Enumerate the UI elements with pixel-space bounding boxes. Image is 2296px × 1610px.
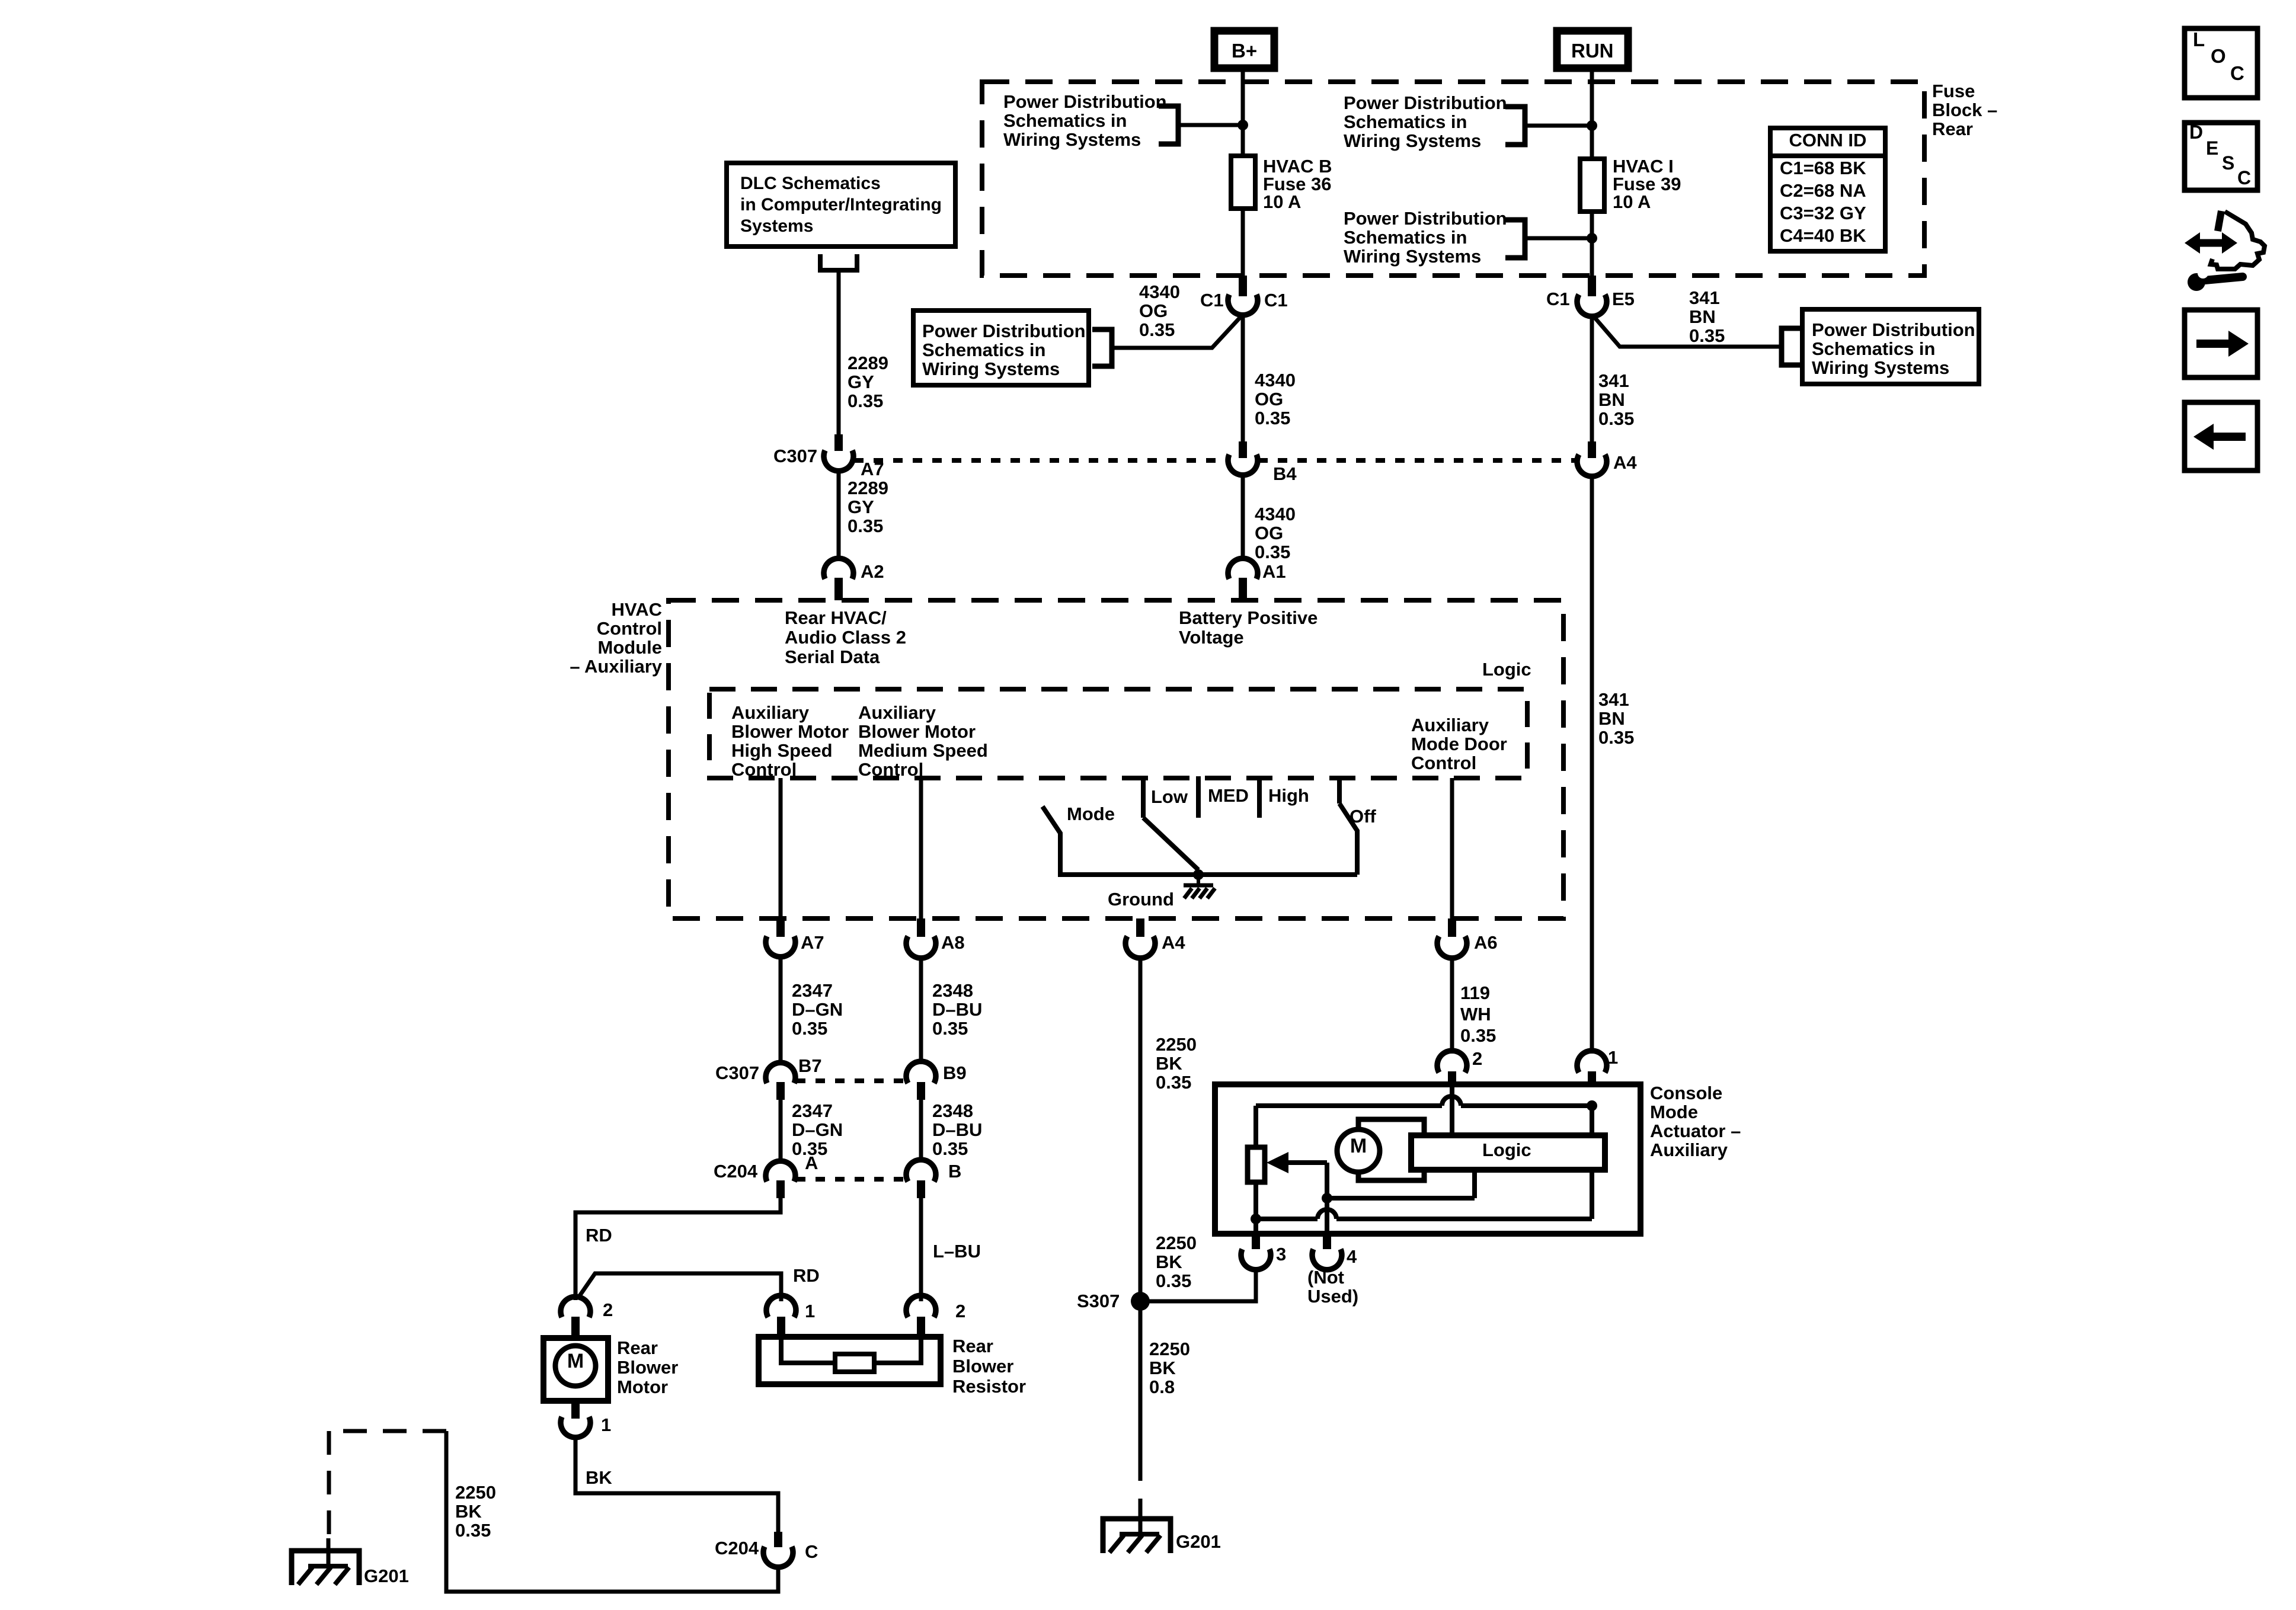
junction dot switch common xyxy=(1193,869,1204,880)
svg-text:Auxiliary: Auxiliary xyxy=(1650,1140,1728,1160)
svg-text:Rear: Rear xyxy=(952,1336,993,1356)
wire B7 to C204 A xyxy=(779,1100,783,1162)
wire mode door control to A6 xyxy=(1450,778,1454,918)
svg-text:BK: BK xyxy=(1156,1053,1182,1074)
wire S307 to G201 middle xyxy=(1139,1301,1143,1481)
C307 dotted line B7-B9 xyxy=(796,1078,906,1083)
pin motor 1 xyxy=(571,1401,580,1419)
actuator motor frame xyxy=(1358,1119,1424,1180)
svg-text:C1=68 BK: C1=68 BK xyxy=(1780,158,1866,178)
connector A6 (module bottom) xyxy=(1437,936,1467,958)
wire potentiometer to pin 3 xyxy=(1253,1182,1258,1234)
wire actuator pin1 down inside box xyxy=(1590,1106,1594,1219)
pin C204 A xyxy=(776,1180,785,1198)
C307 inline connector dotted line (right) xyxy=(1258,458,1575,463)
pin B7 xyxy=(776,1082,785,1100)
pin A4 (module bottom) xyxy=(1136,918,1144,937)
svg-text:0.35: 0.35 xyxy=(1156,1270,1191,1291)
pin C204 B xyxy=(917,1180,925,1198)
switch off blade xyxy=(1339,804,1357,875)
svg-text:0.35: 0.35 xyxy=(932,1018,968,1039)
junction dot wiper/logic xyxy=(1322,1193,1332,1204)
svg-text:341: 341 xyxy=(1689,287,1720,308)
wire A8 to C307 B9 xyxy=(919,956,923,1064)
svg-text:Console: Console xyxy=(1650,1083,1722,1103)
svg-text:D: D xyxy=(2189,121,2203,143)
internal ground symbol (switch) xyxy=(1184,884,1213,888)
actuator internal ground-side wire with hop xyxy=(1256,1217,1318,1221)
svg-text:4340: 4340 xyxy=(1139,281,1180,302)
left arrow xyxy=(2212,433,2246,441)
wire E5 branch to power distribution xyxy=(1594,316,1782,347)
wire stub into G201 middle xyxy=(1139,1499,1143,1534)
svg-text:C4=40 BK: C4=40 BK xyxy=(1780,225,1866,246)
svg-text:Blower Motor: Blower Motor xyxy=(858,721,976,742)
svg-text:C204: C204 xyxy=(714,1161,758,1182)
svg-text:10 A: 10 A xyxy=(1263,191,1301,212)
pin B4 xyxy=(1239,441,1247,458)
svg-text:A6: A6 xyxy=(1474,932,1498,953)
connector C307 B4 xyxy=(1228,454,1258,475)
svg-text:0.35: 0.35 xyxy=(1689,325,1725,346)
HVAC control module - auxiliary dashed outline xyxy=(669,600,1563,918)
potentiometer (position feedback) xyxy=(1248,1147,1265,1182)
rear blower resistor box xyxy=(759,1337,941,1384)
svg-text:Wiring Systems: Wiring Systems xyxy=(1344,130,1481,151)
svg-text:A: A xyxy=(805,1153,818,1173)
module logic dashed box xyxy=(709,689,1527,778)
wire L-BU C204 B to resistor pin 2 xyxy=(919,1198,923,1301)
splice S307 xyxy=(1131,1292,1150,1311)
connector C1 E5 xyxy=(1577,295,1607,316)
switch mode blade and common bar xyxy=(1043,806,1357,875)
junction dot RUN / power distribution tap 2 xyxy=(1587,233,1597,244)
svg-text:M: M xyxy=(567,1350,584,1372)
svg-text:C: C xyxy=(805,1541,818,1562)
svg-text:C204: C204 xyxy=(715,1538,759,1558)
svg-text:Off: Off xyxy=(1350,806,1376,827)
rear blower motor box xyxy=(543,1338,608,1401)
svg-text:Schematics in: Schematics in xyxy=(1344,111,1467,132)
svg-text:(Not: (Not xyxy=(1307,1267,1344,1288)
svg-text:Fuse: Fuse xyxy=(1932,81,1975,101)
svg-text:2348: 2348 xyxy=(932,980,973,1001)
svg-text:0.35: 0.35 xyxy=(932,1138,968,1159)
svg-text:2250: 2250 xyxy=(1156,1034,1197,1055)
wire A6 to actuator pin 2 xyxy=(1450,956,1454,1054)
pin actuator 3 xyxy=(1252,1234,1260,1249)
svg-text:A4: A4 xyxy=(1613,452,1637,473)
wire E5 to A4 xyxy=(1590,314,1594,441)
svg-text:2289: 2289 xyxy=(848,353,888,373)
svg-text:Schematics in: Schematics in xyxy=(1003,110,1127,131)
svg-text:L: L xyxy=(2193,28,2205,50)
svg-text:B+: B+ xyxy=(1232,40,1257,62)
potentiometer wiper arrow xyxy=(1287,1160,1327,1165)
svg-text:2250: 2250 xyxy=(455,1482,496,1503)
wire A4 to S307 xyxy=(1139,956,1143,1301)
svg-text:Wiring Systems: Wiring Systems xyxy=(922,359,1060,379)
svg-text:C307: C307 xyxy=(715,1062,759,1083)
svg-text:HVAC: HVAC xyxy=(611,599,662,620)
connector actuator pin 1 xyxy=(1577,1051,1607,1073)
svg-text:OG: OG xyxy=(1255,389,1283,409)
pin motor 2 xyxy=(571,1317,580,1338)
svg-text:2: 2 xyxy=(1472,1048,1482,1069)
power distribution box left xyxy=(913,311,1089,385)
svg-text:OG: OG xyxy=(1255,523,1283,543)
svg-text:S307: S307 xyxy=(1077,1291,1120,1311)
svg-text:L–BU: L–BU xyxy=(933,1241,981,1262)
svg-text:A4: A4 xyxy=(1162,932,1185,953)
pin A7 (module bottom) xyxy=(776,918,785,937)
connector A8 (module bottom) xyxy=(906,936,936,958)
svg-text:Power Distribution: Power Distribution xyxy=(1344,208,1507,229)
CONN ID table xyxy=(1770,128,1885,251)
svg-text:Wiring Systems: Wiring Systems xyxy=(1344,246,1481,267)
svg-text:2348: 2348 xyxy=(932,1100,973,1121)
wire B+ to fuse 36 xyxy=(1241,68,1245,156)
junction dot pot/pin3 xyxy=(1251,1214,1261,1224)
pin A8 (module bottom) xyxy=(917,918,925,937)
svg-text:Block –: Block – xyxy=(1932,100,1997,120)
svg-text:1: 1 xyxy=(805,1301,815,1321)
switch contact med tick xyxy=(1196,776,1201,818)
wire A7 to C307 B7 xyxy=(779,956,783,1064)
svg-text:341: 341 xyxy=(1598,689,1629,710)
wire fuse 39 to C1 E5 xyxy=(1590,212,1594,276)
wire actuator pin 2 to logic xyxy=(1450,1087,1454,1135)
pin actuator 2 xyxy=(1448,1071,1456,1087)
pin C1 (B+ feed) xyxy=(1239,276,1247,296)
connector actuator pin 3 xyxy=(1241,1249,1271,1270)
connector C307 B7 xyxy=(766,1062,795,1083)
connector A7 (module bottom) xyxy=(766,936,795,957)
switch contact high tick xyxy=(1257,776,1262,818)
wire RUN to fuse 39 xyxy=(1590,68,1594,159)
svg-text:Wiring Systems: Wiring Systems xyxy=(1003,129,1141,150)
svg-text:E: E xyxy=(2206,137,2218,159)
pin A1 xyxy=(1239,578,1247,600)
svg-text:Rear: Rear xyxy=(1932,119,1973,139)
wire high speed control to A7 xyxy=(779,778,783,918)
svg-text:0.35: 0.35 xyxy=(455,1520,491,1541)
pin resistor 1 xyxy=(777,1317,785,1337)
svg-text:2: 2 xyxy=(603,1299,613,1320)
junction dot RUN / power distribution tap 1 xyxy=(1587,120,1597,131)
svg-text:WH: WH xyxy=(1460,1004,1491,1025)
switch contact off xyxy=(1337,776,1342,804)
svg-text:D–GN: D–GN xyxy=(792,999,843,1020)
svg-text:0.35: 0.35 xyxy=(848,516,883,536)
svg-text:Mode Door: Mode Door xyxy=(1411,734,1507,754)
wire wiper to pin 4 xyxy=(1325,1163,1329,1234)
svg-text:3: 3 xyxy=(1276,1244,1286,1265)
svg-text:B9: B9 xyxy=(943,1062,967,1083)
svg-text:C307: C307 xyxy=(773,446,817,466)
svg-text:0.35: 0.35 xyxy=(1255,542,1290,562)
svg-text:Schematics in: Schematics in xyxy=(1344,227,1467,248)
power rail box B+ xyxy=(1214,31,1274,68)
svg-text:M: M xyxy=(1350,1135,1367,1157)
svg-text:RD: RD xyxy=(586,1225,612,1246)
wire C204 C to ground riser xyxy=(446,1431,778,1592)
connector C204 C xyxy=(763,1547,793,1567)
svg-text:0.35: 0.35 xyxy=(848,391,883,411)
ground G201 (left) xyxy=(292,1551,359,1585)
svg-text:0.8: 0.8 xyxy=(1149,1377,1175,1397)
svg-text:2347: 2347 xyxy=(792,1100,833,1121)
svg-text:C3=32 GY: C3=32 GY xyxy=(1780,203,1866,223)
bracket power distribution box left xyxy=(1092,329,1112,366)
svg-text:4340: 4340 xyxy=(1255,370,1296,391)
svg-text:CONN ID: CONN ID xyxy=(1789,130,1867,151)
wire BK motor pin 1 to C204 C xyxy=(575,1436,778,1532)
svg-text:Low: Low xyxy=(1151,786,1188,807)
svg-text:B4: B4 xyxy=(1273,463,1297,484)
connector A4 (module bottom) xyxy=(1125,936,1155,958)
svg-text:Blower: Blower xyxy=(952,1356,1013,1377)
connector C1 (B+ feed) xyxy=(1228,295,1258,315)
wire B9 to C204 B xyxy=(919,1100,923,1162)
svg-text:Audio Class 2: Audio Class 2 xyxy=(785,627,906,648)
junction dot B+ / power distribution tap xyxy=(1237,120,1248,130)
power rail box RUN xyxy=(1557,31,1628,68)
svg-text:Ground: Ground xyxy=(1108,889,1174,910)
wire S307 to actuator pin 3 xyxy=(1140,1269,1256,1301)
svg-text:Power Distribution: Power Distribution xyxy=(1812,319,1975,340)
right arrow xyxy=(2196,340,2230,348)
pin A2 xyxy=(834,578,843,600)
svg-text:A1: A1 xyxy=(1262,561,1286,582)
svg-text:Control: Control xyxy=(1411,753,1476,773)
wire C307 A7 to A2 xyxy=(837,470,841,559)
junction dot actuator pin 1 feed xyxy=(1587,1100,1597,1111)
connector A1 xyxy=(1228,558,1258,579)
svg-text:A7: A7 xyxy=(801,932,824,953)
fuse F39 HVAC I 10A xyxy=(1580,159,1604,212)
DLC box connector bracket xyxy=(820,254,857,270)
bracket power distribution box right xyxy=(1782,328,1801,365)
wire power distribution 2 tap xyxy=(1525,124,1592,128)
icon box arrow left xyxy=(2185,402,2257,470)
icon box LOC xyxy=(2185,28,2257,98)
svg-text:Blower Motor: Blower Motor xyxy=(731,721,849,742)
connector C307 A7 xyxy=(824,450,853,471)
svg-text:4340: 4340 xyxy=(1255,504,1296,524)
svg-text:Control: Control xyxy=(731,759,797,780)
svg-text:Wiring Systems: Wiring Systems xyxy=(1812,357,1949,378)
pin A4 (connector row) xyxy=(1588,441,1596,458)
svg-text:– Auxiliary: – Auxiliary xyxy=(570,656,662,677)
wire medium speed control to A8 xyxy=(919,778,923,918)
wire DLC to C307 A7 xyxy=(837,270,841,434)
svg-text:10 A: 10 A xyxy=(1613,191,1651,212)
svg-text:Auxiliary: Auxiliary xyxy=(858,702,936,723)
icon vehicle diagnostic (arrow + outline + wrench) xyxy=(2195,239,2227,247)
CONN ID header rule xyxy=(1770,153,1885,158)
pin A6 (module bottom) xyxy=(1448,918,1456,937)
svg-text:D–GN: D–GN xyxy=(792,1119,843,1140)
connector motor pin 2 xyxy=(561,1297,590,1317)
svg-text:Mode: Mode xyxy=(1067,804,1115,824)
wire fuse 36 to C1 xyxy=(1241,209,1245,276)
svg-text:341: 341 xyxy=(1598,370,1629,391)
svg-text:Power Distribution: Power Distribution xyxy=(1003,91,1167,112)
svg-text:2250: 2250 xyxy=(1149,1339,1190,1359)
wire feed to potentiometer xyxy=(1253,1106,1258,1147)
svg-text:RUN: RUN xyxy=(1571,40,1614,62)
svg-text:High Speed: High Speed xyxy=(731,740,833,761)
svg-text:RD: RD xyxy=(793,1265,820,1286)
wire B4 to A1 xyxy=(1241,474,1245,559)
bracket power distribution 3 xyxy=(1505,220,1525,258)
pin C307 A7 xyxy=(834,434,843,451)
svg-text:B7: B7 xyxy=(798,1055,822,1076)
console mode actuator - auxiliary box xyxy=(1215,1084,1641,1234)
svg-text:D–BU: D–BU xyxy=(932,1119,982,1140)
svg-text:Battery Positive: Battery Positive xyxy=(1179,607,1318,628)
svg-text:C1: C1 xyxy=(1546,289,1570,309)
svg-text:Rear HVAC/: Rear HVAC/ xyxy=(785,607,887,628)
svg-text:C2=68 NA: C2=68 NA xyxy=(1780,180,1866,201)
svg-text:2250: 2250 xyxy=(1156,1233,1197,1253)
pin actuator 4 xyxy=(1323,1234,1331,1249)
svg-text:Systems: Systems xyxy=(740,216,813,236)
svg-text:in Computer/Integrating: in Computer/Integrating xyxy=(740,195,942,215)
svg-text:Mode: Mode xyxy=(1650,1102,1698,1122)
connector C307 B9 xyxy=(906,1061,936,1083)
svg-text:Logic: Logic xyxy=(1482,1140,1531,1160)
bracket power distribution 1 xyxy=(1159,106,1178,144)
svg-text:BK: BK xyxy=(455,1501,482,1522)
svg-text:MED: MED xyxy=(1208,785,1249,806)
svg-text:Auxiliary: Auxiliary xyxy=(731,702,810,723)
ground G201 (middle) xyxy=(1103,1519,1171,1553)
svg-text:Power Distribution: Power Distribution xyxy=(922,321,1086,341)
wrench xyxy=(2188,273,2205,291)
svg-text:Voltage: Voltage xyxy=(1179,627,1244,648)
svg-text:0.35: 0.35 xyxy=(1598,727,1634,748)
svg-text:1: 1 xyxy=(601,1414,611,1435)
connector A2 xyxy=(824,558,853,579)
actuator motor M circle xyxy=(1337,1129,1380,1172)
svg-text:Schematics in: Schematics in xyxy=(1812,338,1935,359)
svg-text:Rear: Rear xyxy=(617,1337,658,1358)
wire up into logic xyxy=(1472,1170,1477,1198)
svg-text:2289: 2289 xyxy=(848,478,888,498)
pin C1 E5 (RUN feed) xyxy=(1588,276,1596,296)
svg-text:D–BU: D–BU xyxy=(932,999,982,1020)
svg-text:E5: E5 xyxy=(1612,289,1635,309)
svg-text:BN: BN xyxy=(1689,306,1716,327)
actuator internal feed wire with hop xyxy=(1256,1103,1442,1108)
svg-text:Serial Data: Serial Data xyxy=(785,646,880,667)
svg-text:4: 4 xyxy=(1347,1246,1357,1267)
svg-text:0.35: 0.35 xyxy=(1156,1072,1191,1093)
svg-text:G201: G201 xyxy=(364,1566,409,1586)
svg-text:Control: Control xyxy=(597,618,662,639)
wire A4 to console actuator pin 1 xyxy=(1590,474,1594,1054)
svg-text:0.35: 0.35 xyxy=(1460,1025,1496,1046)
svg-text:C: C xyxy=(2237,167,2251,188)
svg-text:S: S xyxy=(2222,152,2234,174)
connector resistor pin 1 xyxy=(766,1295,796,1317)
resistor internal wiring xyxy=(781,1337,835,1363)
resistor element xyxy=(835,1354,874,1372)
svg-text:0.35: 0.35 xyxy=(1255,408,1290,428)
svg-text:High: High xyxy=(1268,785,1309,806)
connector motor pin 1 xyxy=(561,1417,590,1438)
pin actuator 1 xyxy=(1588,1071,1596,1087)
svg-text:2: 2 xyxy=(955,1301,965,1321)
svg-text:C1: C1 xyxy=(1264,290,1288,311)
svg-text:OG: OG xyxy=(1139,300,1168,321)
fuse block - rear dashed outline xyxy=(982,82,1924,276)
svg-text:BK: BK xyxy=(1156,1251,1182,1272)
C307 inline connector dotted line (left) xyxy=(854,458,1227,463)
svg-text:Module: Module xyxy=(598,637,663,658)
rear blower motor M circle xyxy=(555,1346,596,1386)
power distribution box right xyxy=(1802,309,1979,384)
fuse F36 HVAC B 10A xyxy=(1231,156,1255,209)
wire C1 branch to power distribution xyxy=(1112,316,1241,348)
bracket power distribution 2 xyxy=(1505,107,1525,145)
svg-text:GY: GY xyxy=(848,372,874,392)
svg-text:2347: 2347 xyxy=(792,980,833,1001)
pin C204 C xyxy=(774,1532,782,1547)
svg-text:Used): Used) xyxy=(1307,1286,1358,1307)
svg-text:Resistor: Resistor xyxy=(952,1376,1026,1397)
wire RD C204 A to motor pin 2 xyxy=(575,1198,781,1300)
pin B9 xyxy=(917,1082,925,1100)
svg-text:Medium Speed: Medium Speed xyxy=(858,740,988,761)
svg-text:C: C xyxy=(2230,62,2244,84)
svg-text:Blower: Blower xyxy=(617,1357,678,1378)
icon box arrow right xyxy=(2185,310,2257,377)
wire dashed down to G201 left xyxy=(327,1431,331,1538)
svg-text:BK: BK xyxy=(586,1467,612,1488)
svg-text:1: 1 xyxy=(1608,1047,1618,1068)
connector actuator pin 2 xyxy=(1437,1051,1467,1073)
svg-text:C1: C1 xyxy=(1200,290,1224,311)
svg-text:Power Distribution: Power Distribution xyxy=(1344,92,1507,113)
wire dashed to G201 left xyxy=(329,1429,446,1433)
svg-text:BN: BN xyxy=(1598,708,1625,729)
svg-text:BN: BN xyxy=(1598,389,1625,410)
wire power distribution 3 tap xyxy=(1525,236,1592,241)
connector C307 A4 xyxy=(1577,454,1607,476)
svg-text:Schematics in: Schematics in xyxy=(922,340,1045,360)
svg-text:Actuator –: Actuator – xyxy=(1650,1121,1741,1141)
svg-text:A2: A2 xyxy=(861,561,884,582)
icon box DESC xyxy=(2185,123,2257,190)
svg-text:119: 119 xyxy=(1460,982,1490,1003)
switch contact low xyxy=(1141,776,1146,818)
switch blower blade (low to common) xyxy=(1143,818,1198,870)
connector C204 B xyxy=(906,1160,936,1182)
pin resistor 2 xyxy=(917,1317,925,1337)
svg-text:Motor: Motor xyxy=(617,1377,668,1397)
svg-text:0.35: 0.35 xyxy=(1598,408,1634,429)
connector C204 A xyxy=(766,1161,795,1182)
svg-text:BK: BK xyxy=(1149,1358,1176,1378)
svg-text:GY: GY xyxy=(848,497,874,517)
C204 dotted line A-B xyxy=(796,1177,906,1182)
actuator logic box xyxy=(1411,1135,1605,1170)
connector resistor pin 2 xyxy=(906,1295,936,1317)
svg-text:O: O xyxy=(2211,45,2226,67)
